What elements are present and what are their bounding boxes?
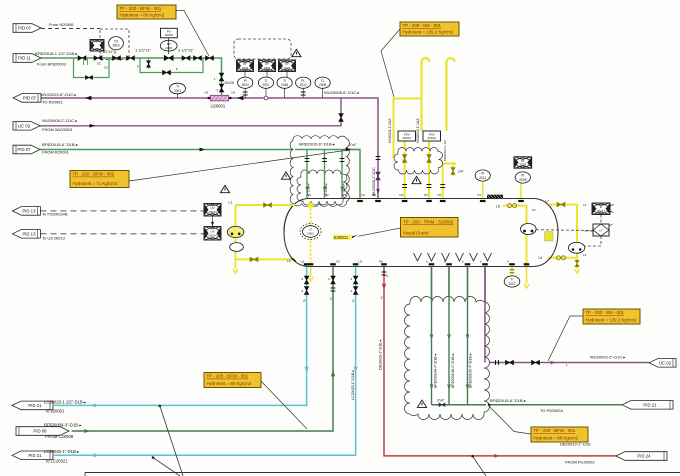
svg-text:Hydrotest = 139.2 Kg/cm2: Hydrotest = 139.2 Kg/cm2	[403, 30, 454, 35]
svg-text:N8: N8	[372, 193, 376, 197]
svg-text:LT: LT	[599, 229, 602, 233]
svg-text:TP - 200 - BFW - 001: TP - 200 - BFW - 001	[120, 6, 162, 11]
svg-text:FROM PU20002: FROM PU20002	[565, 460, 595, 465]
svg-text:PID 13: PID 13	[22, 209, 36, 214]
svg-text:20012: 20012	[403, 136, 412, 140]
svg-text:FROM WU20001: FROM WU20001	[42, 127, 73, 132]
svg-text:V5: V5	[438, 193, 442, 197]
svg-text:PID 21: PID 21	[28, 403, 42, 408]
svg-text:Hydrotest = 71 Kg/cm2: Hydrotest = 71 Kg/cm2	[73, 181, 118, 186]
svg-text:WU20008-2"-D1C-▸: WU20008-2"-D1C-▸	[42, 118, 77, 123]
svg-text:TO P20002A: TO P20002A	[540, 408, 563, 413]
svg-text:LC20025-1"-D1B-▸: LC20025-1"-D1B-▸	[351, 370, 355, 400]
svg-text:2004: 2004	[242, 83, 249, 87]
svg-text:-4"-D1B-▸: -4"-D1B-▸	[342, 183, 346, 197]
svg-text:LC20023-1 1/2"-D1B-▸: LC20023-1 1/2"-D1B-▸	[44, 399, 86, 404]
svg-text:PID 07: PID 07	[18, 26, 32, 31]
svg-text:PID 21: PID 21	[643, 403, 657, 408]
svg-text:Hydrotest = 86 Kg/cm2: Hydrotest = 86 Kg/cm2	[534, 436, 579, 441]
svg-text:SC: SC	[104, 66, 108, 70]
svg-text:-4"-D1B-▸: -4"-D1B-▸	[307, 183, 311, 197]
svg-text:2028: 2028	[520, 163, 527, 167]
svg-text:BF$20010B-4"-D1B-▸: BF$20010B-4"-D1B-▸	[451, 353, 455, 388]
svg-text:L6: L6	[539, 256, 543, 260]
svg-text:P3: P3	[424, 193, 428, 197]
svg-text:BF$20009-3"-D1B-▸: BF$20009-3"-D1B-▸	[44, 423, 82, 428]
svg-text:To U3-26013: To U3-26013	[42, 235, 66, 240]
svg-text:L7: L7	[545, 199, 549, 203]
svg-text:2011: 2011	[479, 176, 486, 180]
svg-text:2004: 2004	[242, 66, 249, 70]
svg-text:To P20001A/B: To P20001A/B	[42, 212, 68, 217]
svg-text:2004: 2004	[264, 66, 271, 70]
svg-text:6"x4": 6"x4"	[349, 143, 357, 147]
svg-text:TP - 200 - MS - 001: TP - 200 - MS - 001	[403, 23, 442, 28]
svg-text:TP - 200 - TRIM - S20003: TP - 200 - TRIM - S20003	[403, 220, 454, 225]
svg-text:BF$20015-6"-D1B-▸: BF$20015-6"-D1B-▸	[490, 398, 526, 403]
svg-text:BF$20010A-4"-D1B-▸: BF$20010A-4"-D1B-▸	[434, 353, 438, 388]
svg-text:1 1/2"x1": 1 1/2"x1"	[135, 47, 152, 52]
svg-text:TP - 200 - BFW - 001: TP - 200 - BFW - 001	[207, 374, 249, 379]
svg-text:Hydrotest = 139.2 Kg/cm2: Hydrotest = 139.2 Kg/cm2	[586, 318, 637, 323]
svg-text:2001: 2001	[174, 89, 181, 93]
svg-text:PID 24: PID 24	[637, 454, 651, 459]
svg-text:UC 02: UC 02	[18, 124, 31, 129]
svg-text:N9: N9	[379, 260, 383, 264]
svg-text:2002: 2002	[307, 232, 314, 236]
svg-text:From BF$20003: From BF$20003	[37, 62, 67, 67]
svg-text:MS20013-1 1/2": MS20013-1 1/2"	[443, 139, 447, 161]
svg-text:6"x4": 6"x4"	[437, 399, 445, 403]
svg-text:To s20001: To s20001	[45, 409, 65, 414]
svg-text:U3: U3	[336, 260, 340, 264]
svg-text:DB20019-1"-D1E-▸: DB20019-1"-D1E-▸	[379, 339, 383, 370]
svg-text:U1: U1	[301, 260, 305, 264]
svg-text:N1: N1	[232, 91, 236, 95]
svg-text:2007: 2007	[262, 83, 269, 87]
svg-text:20017: 20017	[597, 209, 606, 213]
svg-text:TP - 200 - MS - 001: TP - 200 - MS - 001	[586, 310, 625, 315]
svg-text:WU20002-2"-D1C-▸: WU20002-2"-D1C-▸	[590, 355, 625, 360]
svg-text:BF$20010C-4"-D1B-▸: BF$20010C-4"-D1B-▸	[469, 353, 473, 388]
svg-text:U2: U2	[359, 260, 363, 264]
svg-text:TP - 200 - BFW - 001: TP - 200 - BFW - 001	[534, 428, 576, 433]
svg-text:20012: 20012	[428, 136, 437, 140]
svg-text:2005: 2005	[319, 83, 326, 87]
svg-text:BF$20018-1 1/2"-D1B-▸: BF$20018-1 1/2"-D1B-▸	[35, 51, 78, 56]
svg-text:1 1/2"x1": 1 1/2"x1"	[178, 47, 195, 52]
svg-text:FROM C20008: FROM C20008	[45, 434, 74, 439]
svg-text:PID 13: PID 13	[22, 232, 36, 237]
svg-text:N2: N2	[205, 91, 209, 95]
svg-text:P2: P2	[400, 193, 404, 197]
svg-text:2004: 2004	[284, 66, 291, 70]
svg-text:20015: 20015	[165, 33, 174, 37]
svg-text:F: F	[176, 68, 178, 72]
svg-text:V4: V4	[361, 193, 365, 197]
svg-text:Hydrotest = 86 Kg/cm2: Hydrotest = 86 Kg/cm2	[207, 381, 252, 386]
svg-text:Hydrotest = 86 Kg/cm2: Hydrotest = 86 Kg/cm2	[120, 13, 165, 18]
svg-text:2046: 2046	[281, 83, 288, 87]
svg-text:TP - 200 - BFW - 002: TP - 200 - BFW - 002	[73, 172, 115, 177]
svg-text:2007: 2007	[508, 282, 515, 286]
svg-text:L3: L3	[583, 253, 587, 257]
svg-text:L5: L5	[532, 208, 536, 212]
svg-text:WU20008-2"-D1C: WU20008-2"-D1C	[372, 167, 376, 196]
svg-text:20024: 20024	[208, 233, 217, 237]
svg-text:40x25: 40x25	[225, 81, 234, 85]
svg-text:PID 07: PID 07	[17, 147, 31, 152]
svg-text:F: F	[137, 65, 139, 69]
svg-text:PID 21: PID 21	[28, 453, 42, 458]
svg-text:WU20008-6"-D1C-▸: WU20008-6"-D1C-▸	[324, 90, 359, 95]
svg-text:2028: 2028	[519, 178, 526, 182]
svg-text:MS20012-1"-A1A: MS20012-1"-A1A	[416, 117, 420, 143]
svg-text:2012: 2012	[300, 83, 307, 87]
svg-text:UC 02: UC 02	[659, 361, 672, 366]
svg-text:20023: 20023	[208, 210, 217, 214]
svg-text:( 1/2"x1")(: ( 1/2"x1")(	[100, 50, 117, 54]
svg-text:P1: P1	[478, 193, 482, 197]
svg-text:U20001: U20001	[211, 104, 226, 109]
svg-text:PID 07: PID 07	[23, 96, 37, 101]
svg-text:To LC20021: To LC20021	[45, 459, 68, 464]
svg-text:BF$20015-6"-D1B-▸: BF$20015-6"-D1B-▸	[42, 142, 78, 147]
svg-text:L1: L1	[229, 200, 233, 204]
svg-text:L8: L8	[496, 204, 500, 208]
svg-text:PID 11: PID 11	[18, 56, 31, 61]
svg-text:LC20025-1"-D1B-▸: LC20025-1"-D1B-▸	[44, 449, 79, 454]
svg-text:Visual Check: Visual Check	[403, 231, 429, 236]
svg-text:L2: L2	[287, 259, 291, 263]
svg-text:FROM R20001: FROM R20001	[42, 150, 70, 155]
svg-text:From N20006: From N20006	[49, 22, 74, 27]
svg-text:2814: 2814	[112, 44, 119, 48]
svg-text:L4: L4	[583, 203, 587, 207]
svg-text:WU20022-6"-D1C-▸: WU20022-6"-D1C-▸	[41, 92, 76, 97]
svg-text:S20001: S20001	[334, 235, 349, 240]
svg-text:1/4": 1/4"	[458, 170, 465, 174]
svg-text:TO R20001: TO R20001	[42, 99, 63, 104]
svg-text:MS20011-1"-A1A: MS20011-1"-A1A	[388, 118, 392, 143]
svg-text:BF$20015-6"-D1B-▸: BF$20015-6"-D1B-▸	[299, 142, 335, 147]
svg-text:-4"-D1B-▸: -4"-D1B-▸	[324, 183, 328, 197]
svg-text:SC: SC	[97, 62, 101, 66]
